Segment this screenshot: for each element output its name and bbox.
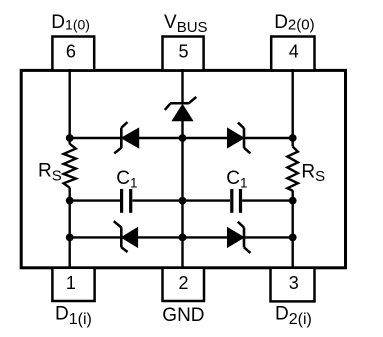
diode bottom-right top bend (238, 222, 244, 228)
diode top-right (points right): triangle (228, 128, 244, 148)
pin 3 box (271, 268, 315, 302)
svg-text:1: 1 (66, 273, 76, 293)
diode top-left bottom bend (114, 148, 121, 154)
wire: right vertical, pin4 to resistor (292, 69, 294, 147)
svg-text:GND: GND (162, 305, 204, 326)
wire: middle row left segment (70, 199, 120, 201)
diode top-right top bend (238, 123, 244, 129)
diode top-right cathode bar (243, 128, 246, 148)
resistor RS right (zigzag) (287, 147, 298, 191)
diode bottom-left top bend (114, 221, 122, 227)
capacitor C1 left: left plate (120, 189, 123, 213)
junction dot row2 right (289, 197, 297, 205)
zener right bend (189, 97, 196, 103)
wire: top row horizontal (70, 137, 293, 139)
diode bottom-right (points right): triangle (228, 228, 244, 248)
wire: right vertical, resistor to pin3 (292, 190, 294, 269)
capacitor C1 right: left plate (230, 189, 233, 213)
zener diode D (VBUS clamp): cathode bar (170, 102, 189, 105)
capacitor C1 right: right plate (239, 189, 242, 213)
diode top-left top bend (121, 122, 127, 128)
pin 5 box (163, 37, 204, 71)
wire: left vertical, resistor to pin1 (68, 188, 70, 269)
junction dot row3 left (66, 234, 74, 242)
svg-text:3: 3 (289, 273, 299, 293)
package body outline (21, 70, 345, 267)
pin 1 box (52, 268, 94, 301)
wire: center vertical, zener to pin2 (181, 121, 183, 270)
diode bottom-left (points left): cathode bar (120, 227, 123, 247)
diode bottom-left triangle (122, 228, 138, 248)
zener triangle (anode, pointing up) (172, 105, 192, 121)
wire: center vertical, pin5 to zener (181, 69, 183, 104)
diode bottom-right bottom bend (244, 247, 250, 253)
pin 6 box (52, 37, 94, 71)
svg-text:6: 6 (66, 42, 76, 62)
pin 2 box (163, 268, 205, 301)
svg-text:4: 4 (289, 42, 299, 62)
capacitor C1 left: right plate (129, 189, 132, 213)
diode bottom-left bottom bend (121, 247, 127, 252)
diode bottom-right cathode bar (243, 227, 246, 247)
diode top-right bottom bend (244, 148, 250, 154)
pin 4 box (271, 37, 314, 71)
svg-text:5: 5 (178, 42, 188, 62)
wire: middle row center segment (132, 199, 230, 201)
junction dot row1 right (289, 134, 297, 142)
resistor RS left (zigzag) (64, 144, 76, 188)
junction dot row2 center (179, 197, 187, 205)
junction dot row1 left (66, 134, 74, 142)
junction dot row3 center (179, 234, 187, 242)
diode top-left triangle (122, 128, 139, 148)
wire: left vertical, pin6 to resistor (68, 69, 70, 144)
junction dot row1 center (179, 134, 187, 142)
wire: middle row right segment (242, 199, 293, 201)
junction dot row2 left (66, 197, 74, 205)
junction dot row3 right (289, 234, 297, 242)
svg-text:2: 2 (178, 273, 188, 293)
zener left bend (165, 103, 171, 110)
diode top-left (points left): cathode bar (120, 128, 123, 148)
wire: bottom row horizontal (70, 236, 293, 238)
